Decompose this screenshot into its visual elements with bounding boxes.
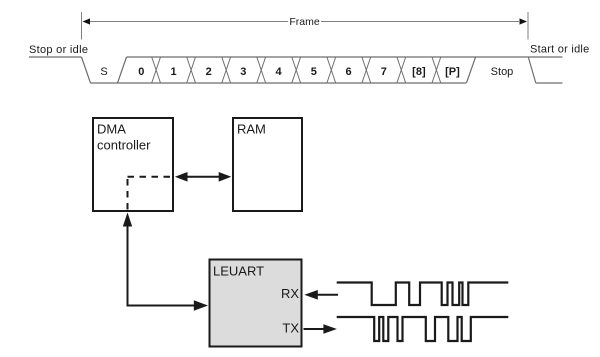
TX output arrow xyxy=(304,328,326,330)
svg-text:DMA: DMA xyxy=(97,122,126,137)
svg-text:5: 5 xyxy=(311,66,317,78)
RX input arrow xyxy=(316,294,338,296)
bus crossing 2|3 xyxy=(222,57,231,83)
wire fall stop to start xyxy=(528,57,536,83)
arrowhead up into DMA xyxy=(123,213,132,227)
bus crossing 1|2 xyxy=(187,57,196,83)
svg-text:7: 7 xyxy=(381,66,387,78)
svg-text:4: 4 xyxy=(275,66,282,78)
DMA controller box xyxy=(93,118,173,211)
bus crossing 5|6 xyxy=(327,57,336,83)
svg-text:0: 0 xyxy=(138,66,144,78)
wire idle high left xyxy=(29,56,82,58)
svg-text:Stop: Stop xyxy=(491,66,514,78)
wire bus top line xyxy=(127,56,563,58)
svg-text:6: 6 xyxy=(345,66,351,78)
frame bracket left tick xyxy=(81,12,83,40)
frame arrowhead left xyxy=(83,18,91,24)
arrowhead into LEUART xyxy=(194,300,208,311)
svg-text:2: 2 xyxy=(206,66,212,78)
svg-text:Frame: Frame xyxy=(289,16,319,28)
bus crossing 7|8 xyxy=(397,57,406,83)
svg-text:Stop or idle: Stop or idle xyxy=(29,44,88,56)
svg-text:1: 1 xyxy=(171,66,177,78)
LEUART box xyxy=(210,260,302,347)
frame bracket right tick xyxy=(527,12,529,40)
frame arrowhead right xyxy=(520,18,528,24)
svg-text:RAM: RAM xyxy=(237,122,266,137)
wire LEUART to DMA horizontal xyxy=(127,305,197,307)
bus crossing 0|1 xyxy=(152,57,161,83)
RAM box xyxy=(233,118,302,211)
wire rise P to stop xyxy=(466,57,475,83)
wire fall to start bit xyxy=(82,57,91,83)
svg-text:controller: controller xyxy=(97,138,151,153)
svg-text:Start or idle: Start or idle xyxy=(530,44,590,56)
bidirectional arrow DMA-RAM xyxy=(186,176,220,178)
dashed dma request vertical xyxy=(127,179,129,211)
svg-text:[P]: [P] xyxy=(445,66,460,78)
bus crossing 3|4 xyxy=(257,57,266,83)
frame dimension line right segment xyxy=(321,21,519,23)
RX waveform xyxy=(337,283,509,306)
svg-text:RX: RX xyxy=(281,286,299,301)
svg-text:3: 3 xyxy=(240,66,246,78)
svg-text:[8]: [8] xyxy=(412,66,426,78)
bus crossing 6|7 xyxy=(362,57,371,83)
wire start low right xyxy=(536,82,563,84)
svg-text:S: S xyxy=(100,66,107,78)
TX waveform xyxy=(337,317,509,341)
frame dimension line left segment xyxy=(90,21,288,23)
wire bus bottom line xyxy=(91,82,467,84)
bus crossing 4|5 xyxy=(292,57,301,83)
svg-text:TX: TX xyxy=(282,321,299,336)
wire LEUART to DMA vertical xyxy=(127,224,129,306)
svg-text:LEUART: LEUART xyxy=(213,264,264,279)
wire rise S to data xyxy=(118,57,127,83)
bus crossing 8|P xyxy=(432,57,441,83)
dashed dma request horizontal xyxy=(128,176,174,178)
